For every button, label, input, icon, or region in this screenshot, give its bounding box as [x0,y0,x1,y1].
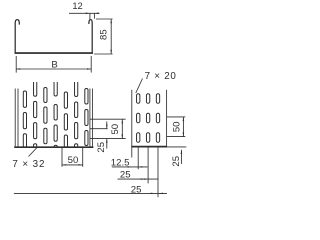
svg-text:50: 50 [68,155,79,166]
rail dimension 25 (right) [167,146,186,148]
slot column 5 [64,92,67,108]
rail slot column 2 [146,94,149,104]
slot column 7 [85,89,88,105]
svg-text:B: B [51,59,57,70]
svg-text:7 × 20: 7 × 20 [145,71,177,82]
channel cross-section [15,20,92,53]
bottom perforation pattern right edge [89,89,91,148]
slot column 3 [44,88,47,103]
bottom pattern dimension 50 (right) [90,118,126,120]
slot column 6 [75,82,78,97]
dimension B [15,56,17,73]
svg-text:12.5: 12.5 [111,157,130,168]
side rail right edge [166,90,168,147]
slot column 1 [23,91,26,107]
svg-text:50: 50 [172,121,183,132]
side rail bottom edge [131,146,167,148]
rail dimension 25 (second) [14,192,167,194]
label 7 x 32 leader [29,148,38,157]
svg-text:12: 12 [72,1,82,11]
bottom pattern dimension 25 (right) [90,128,108,130]
bottom perforation pattern left edge [14,89,16,148]
bottom pattern dimension 50 (below) [61,148,63,167]
svg-text:25: 25 [96,142,107,153]
rail dimension 12.5 [112,166,148,168]
svg-text:25: 25 [131,184,142,195]
svg-text:25: 25 [171,156,182,167]
rail dimension 50 (right) [167,116,185,118]
slot column 4 [54,82,57,96]
rail slot column 1 [137,94,140,104]
label 7 x 20 leader [136,79,143,94]
bottom perforation pattern bottom edge [14,146,93,148]
svg-text:7 × 32: 7 × 32 [12,159,45,170]
rail slot column 3 [156,94,159,104]
svg-text:50: 50 [110,124,121,135]
rail dimension 25 (first) [118,178,159,180]
svg-text:25: 25 [120,170,131,181]
svg-text:85: 85 [99,29,110,40]
dimension 85 [96,18,113,20]
rail column extension lines [131,147,133,158]
slot column 2 [34,82,37,96]
side rail left edge [131,90,133,147]
